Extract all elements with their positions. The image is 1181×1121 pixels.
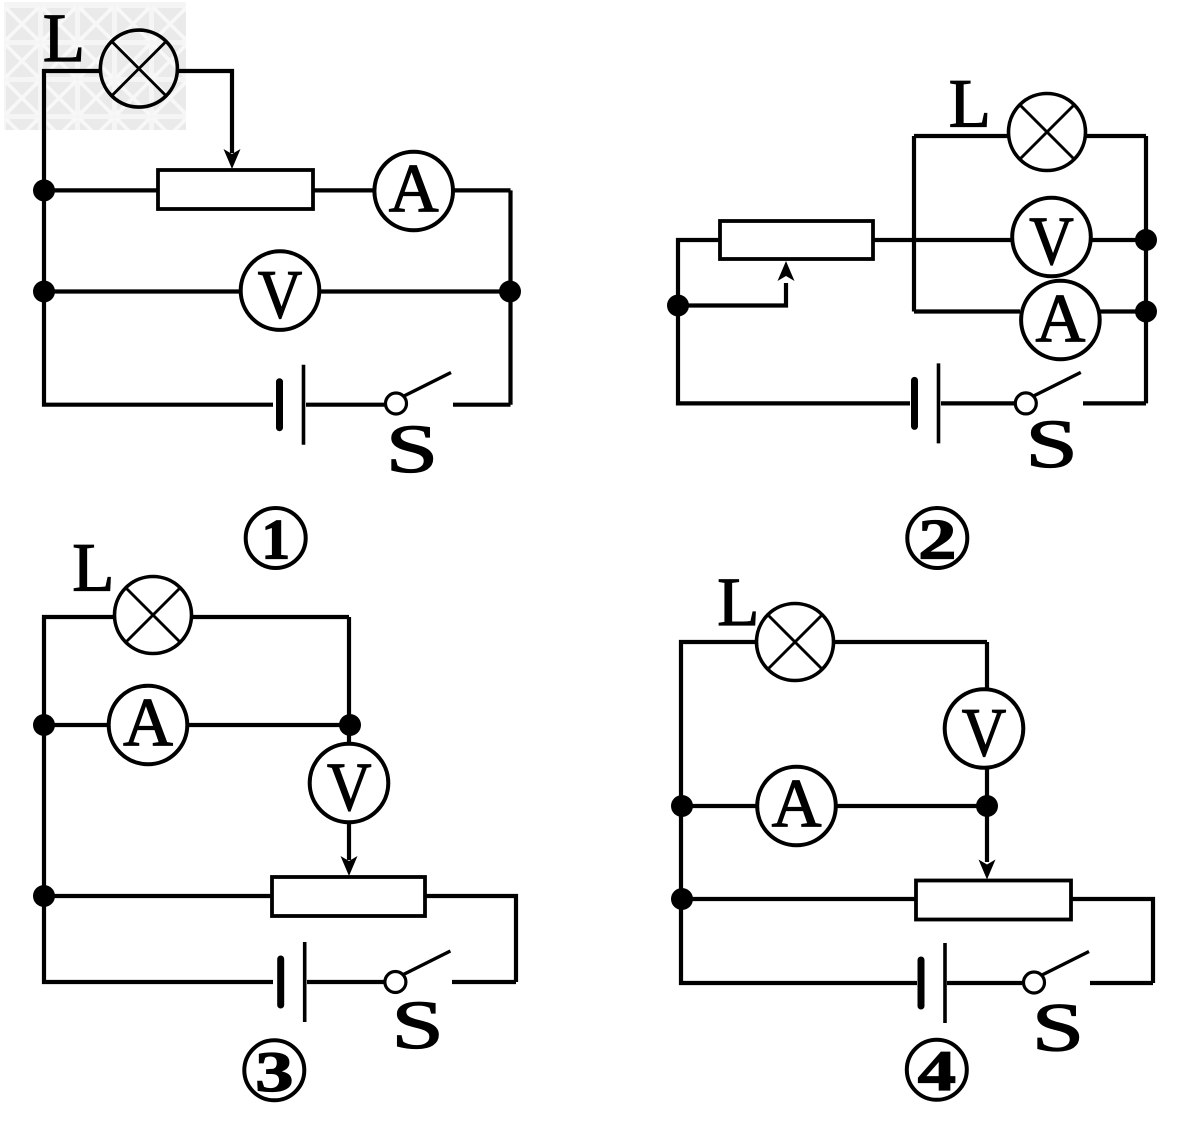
svg-text:A: A [123, 684, 173, 760]
svg-text:L: L [717, 564, 759, 640]
svg-text:V: V [1029, 203, 1074, 279]
svg-text:1: 1 [261, 508, 290, 571]
svg-text:S: S [391, 987, 444, 1063]
svg-text:A: A [772, 765, 822, 841]
svg-text:L: L [949, 65, 991, 141]
svg-text:3: 3 [255, 1041, 293, 1104]
svg-text:S: S [1032, 990, 1085, 1066]
svg-text:A: A [389, 150, 439, 226]
svg-text:V: V [258, 257, 303, 333]
svg-text:A: A [1035, 280, 1085, 356]
svg-text:2: 2 [918, 508, 956, 571]
svg-text:4: 4 [918, 1040, 956, 1103]
svg-text:S: S [1025, 406, 1078, 482]
svg-text:L: L [72, 530, 114, 606]
svg-text:V: V [327, 749, 372, 825]
svg-text:S: S [386, 411, 439, 487]
svg-text:V: V [962, 694, 1007, 770]
svg-text:L: L [43, 0, 85, 76]
